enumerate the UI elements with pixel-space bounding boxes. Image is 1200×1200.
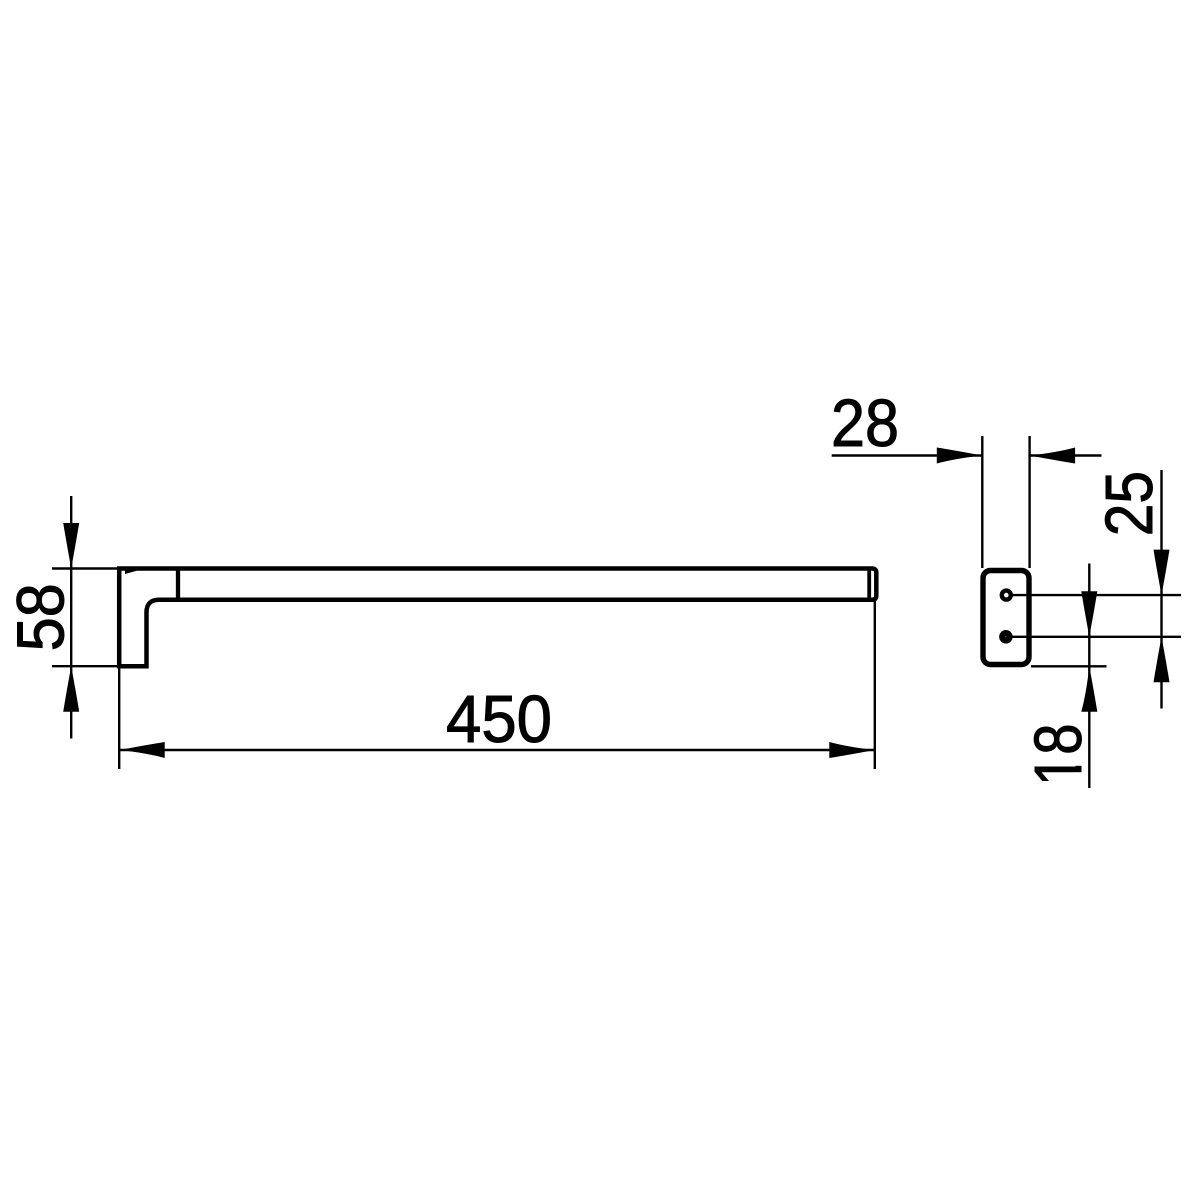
dimension 58 extension line top [52, 567, 119, 569]
dimension 25 hole reference line top [1013, 594, 1182, 596]
dimension 18 arrow top [1081, 591, 1097, 637]
svg-text:450: 450 [446, 682, 552, 757]
dimension 28 extension line left [981, 436, 983, 568]
top mounting hole [1002, 591, 1011, 600]
dimension 58 extension line bottom [52, 665, 119, 667]
towel bar side view outline [119, 569, 876, 667]
dimension 28 arrow left pointing right [937, 448, 983, 464]
svg-text:28: 28 [831, 386, 899, 461]
dimension 450 dimension line [119, 749, 875, 751]
dimension 28 arrow right pointing left [1030, 448, 1076, 464]
dimension 25 hole reference line bottom [1013, 636, 1182, 638]
dimension 18 plate bottom reference line [1031, 665, 1107, 667]
wall plate front view rounded rectangle [983, 571, 1029, 665]
dimension 28 dimension line right segment [1030, 454, 1102, 456]
dimension 25 label text [1092, 471, 1166, 536]
dimension 58 arrow top [63, 523, 79, 569]
bracket cover divider line [176, 567, 180, 602]
dimension 450 arrow left [119, 742, 165, 758]
bar end cap seam line [867, 572, 871, 597]
dimension 28 dimension line left segment [832, 454, 983, 456]
dimension 450 label text [446, 682, 552, 757]
svg-text:18: 18 [1021, 724, 1096, 786]
dimension 25 arrow top [1154, 550, 1170, 596]
dimension 58 arrow bottom [63, 666, 79, 712]
dimension 28 label text [831, 386, 899, 461]
dimension 450 extension line left [118, 667, 120, 769]
dimension 18 arrow bottom [1081, 666, 1097, 712]
dimension 18 dimension line [1088, 564, 1090, 789]
dimension 450 arrow right [829, 742, 875, 758]
dimension 58 label text [3, 583, 78, 651]
svg-text:58: 58 [3, 583, 78, 651]
dimension 450 extension line right [874, 601, 876, 769]
dimension 25 dimension line [1160, 470, 1162, 709]
small corner wedge at bracket top [125, 570, 138, 574]
dimension 25 arrow bottom [1154, 637, 1170, 683]
svg-text:25: 25 [1092, 471, 1166, 536]
dimension 18 label text [1021, 724, 1096, 786]
dimension 28 extension line right [1028, 436, 1030, 568]
dimension 58 dimension line [70, 496, 72, 739]
bottom mounting hole [1002, 633, 1009, 640]
